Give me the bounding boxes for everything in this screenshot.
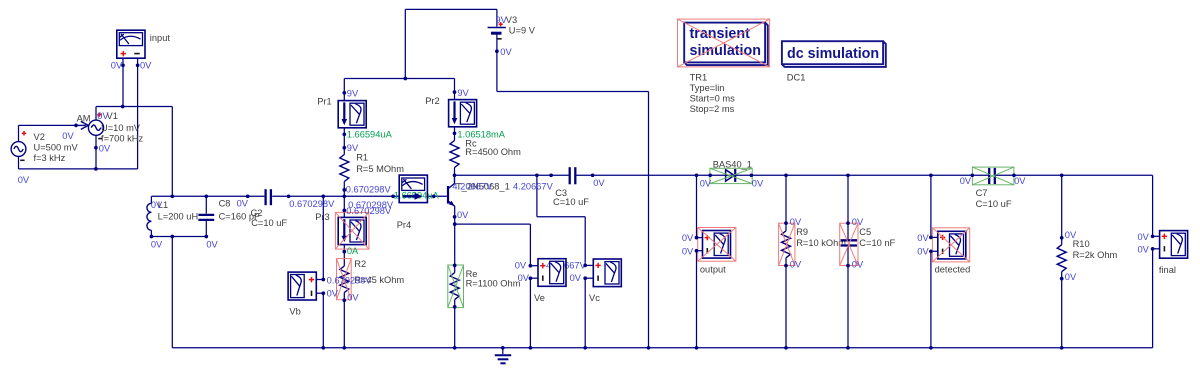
selection box BAS40_1 <box>710 168 752 183</box>
svg-text:DC1: DC1 <box>787 72 806 82</box>
svg-text:9V: 9V <box>347 88 359 98</box>
wire R2 to rail <box>343 293 345 348</box>
wire V2 plus stub <box>18 125 20 141</box>
wire Rc to collector <box>454 168 456 176</box>
wire Pr1 to R1 <box>343 128 345 155</box>
wire C3 to right rail <box>576 174 988 176</box>
voltmeter final <box>1153 231 1188 259</box>
svg-text:0V: 0V <box>500 47 512 57</box>
svg-text:V3: V3 <box>506 15 517 25</box>
capacitor C5 <box>841 240 857 245</box>
svg-text:Vb: Vb <box>289 307 300 317</box>
svg-text:0V: 0V <box>97 111 109 121</box>
svg-text:0V: 0V <box>515 260 527 270</box>
svg-text:9V: 9V <box>457 88 469 98</box>
svg-text:0V: 0V <box>327 289 339 299</box>
wire C8 bottom lead <box>205 221 207 236</box>
svg-text:Pr1: Pr1 <box>317 96 331 106</box>
wire Vc minus to rail <box>584 278 586 348</box>
wire base node to Vb plus <box>322 196 324 279</box>
wire 9V rail <box>344 78 454 80</box>
label C2 properties <box>251 208 288 228</box>
ground <box>495 348 511 364</box>
svg-text:U=500 mV: U=500 mV <box>34 143 79 153</box>
wire C7 to final corner <box>996 174 1153 176</box>
selection box R9 <box>779 223 795 265</box>
svg-text:C7: C7 <box>976 188 988 198</box>
wire Vc link <box>537 216 585 218</box>
svg-text:0V: 0V <box>518 273 530 283</box>
svg-text:0V: 0V <box>570 273 582 283</box>
wire final plus drop <box>1152 175 1154 236</box>
wire tank to ground rail <box>171 237 173 348</box>
svg-text:R10: R10 <box>1073 239 1090 249</box>
svg-text:0V: 0V <box>140 60 152 70</box>
label C8 properties <box>219 199 260 222</box>
svg-text:0V: 0V <box>206 240 218 250</box>
svg-text:0V: 0V <box>1138 232 1150 242</box>
wire Pr3 to R2 <box>343 244 345 266</box>
wire output minus to rail <box>696 251 698 348</box>
svg-text:0V: 0V <box>457 210 469 220</box>
svg-text:final: final <box>1159 265 1176 275</box>
svg-text:0V: 0V <box>99 144 111 154</box>
svg-text:R=10 kOhm: R=10 kOhm <box>796 238 846 248</box>
svg-text:L=200 uH: L=200 uH <box>158 211 199 221</box>
current probe Pr2 <box>449 100 477 127</box>
svg-text:Ve: Ve <box>534 293 545 303</box>
svg-text:R=1100 Ohm: R=1100 Ohm <box>466 279 521 289</box>
svg-text:C=10 uF: C=10 uF <box>976 199 1012 209</box>
inductor L1 <box>147 203 152 230</box>
svg-text:Type=lin: Type=lin <box>690 83 725 93</box>
current labels <box>347 130 506 256</box>
wire Pr4 to base <box>427 195 447 197</box>
current probe Pr1 <box>338 101 366 128</box>
svg-text:detected: detected <box>935 265 971 275</box>
resistor R9 <box>782 231 791 258</box>
wire source bottom <box>19 168 138 170</box>
svg-text:0V: 0V <box>62 131 74 141</box>
wire R10 to rail <box>1061 272 1063 348</box>
label C7 properties <box>976 188 1012 209</box>
capacitor C3 <box>570 167 576 184</box>
svg-text:C=10 uF: C=10 uF <box>251 218 287 228</box>
wire rail to C5 <box>847 175 849 239</box>
svg-text:0V: 0V <box>151 200 163 210</box>
svg-text:0V: 0V <box>347 293 359 303</box>
svg-text:9V: 9V <box>496 15 508 25</box>
wire C2 to Pr4 <box>272 195 399 197</box>
wire V3 plus stub <box>496 9 498 26</box>
capacitor C8 <box>198 215 214 220</box>
wire Vb minus to rail <box>322 293 324 348</box>
wire Ve plus drop <box>529 224 531 266</box>
svg-text:0V: 0V <box>18 175 30 185</box>
wire detected plus drop <box>930 175 932 237</box>
selection box detected <box>932 228 969 262</box>
svg-text:C8: C8 <box>219 199 231 209</box>
svg-text:input: input <box>150 33 171 43</box>
label V2 properties <box>34 132 79 163</box>
wire rail to R10 <box>1061 175 1063 244</box>
label R2 properties <box>354 259 404 285</box>
label Rc properties <box>465 138 521 157</box>
selection box C7 <box>972 167 1014 185</box>
label L1 properties <box>158 200 199 221</box>
selection box C5 <box>840 223 858 265</box>
label R9 properties <box>796 227 846 248</box>
am source V1 <box>76 112 104 138</box>
label V3 properties <box>506 15 536 35</box>
svg-text:0V: 0V <box>1065 230 1077 240</box>
svg-text:9V: 9V <box>347 143 359 153</box>
svg-text:R=5 MOhm: R=5 MOhm <box>356 164 404 174</box>
svg-text:Pr2: Pr2 <box>425 96 439 106</box>
svg-text:output: output <box>700 264 726 274</box>
wire V3 minus stub <box>496 34 498 91</box>
svg-text:C5: C5 <box>859 227 871 237</box>
svg-text:C2: C2 <box>251 208 263 218</box>
selection box Re <box>448 265 464 308</box>
voltmeter detected <box>931 231 966 259</box>
svg-text:0V: 0V <box>790 260 802 270</box>
svg-text:C=10 uF: C=10 uF <box>553 197 589 207</box>
wire final minus drop <box>1152 249 1154 348</box>
svg-text:0V: 0V <box>593 178 605 188</box>
wire R9 to rail <box>785 258 787 348</box>
svg-text:0V: 0V <box>852 260 864 270</box>
wire 9V to Pr1 <box>343 79 345 102</box>
label Re properties <box>466 269 521 288</box>
wire V1 top stub <box>95 107 97 121</box>
wire V3 return drop <box>648 92 650 348</box>
current probe Pr3 <box>338 217 366 244</box>
svg-text:1.06518mA: 1.06518mA <box>457 130 505 140</box>
svg-text:0V: 0V <box>237 199 249 209</box>
wire V1 top <box>96 106 172 108</box>
label TR1 properties <box>690 72 736 114</box>
svg-text:U=9 V: U=9 V <box>509 25 536 35</box>
svg-text:R1: R1 <box>356 153 368 163</box>
wire V2 to AM input <box>19 124 77 126</box>
wire tank top <box>151 195 264 197</box>
wire 9V drop <box>404 9 406 78</box>
svg-text:1.66594uA: 1.66594uA <box>347 130 393 140</box>
svg-text:Pr4: Pr4 <box>397 220 411 230</box>
selection box R2 <box>337 259 352 300</box>
wire L1 top lead <box>150 196 152 203</box>
label C3 properties <box>553 188 589 207</box>
selection box output <box>698 228 736 262</box>
current probe Pr4 <box>399 175 427 203</box>
svg-text:0V: 0V <box>1138 244 1150 254</box>
wire Re to rail <box>454 300 456 348</box>
svg-text:0V: 0V <box>790 217 802 227</box>
wire V1 bottom stub <box>95 135 97 169</box>
svg-text:0.670298V: 0.670298V <box>289 199 335 209</box>
svg-text:Pr3: Pr3 <box>315 212 329 222</box>
wire Vc plus drop <box>584 217 586 266</box>
wire V2 minus stub <box>18 156 20 169</box>
svg-text:C=10 nF: C=10 nF <box>859 238 895 248</box>
svg-text:0V: 0V <box>1065 272 1077 282</box>
svg-text:0V: 0V <box>752 178 764 188</box>
wire V3 plus top <box>405 8 497 10</box>
wire base node to Pr3 <box>343 196 345 217</box>
wire emitter to Ve branch <box>455 223 531 225</box>
capacitor C2 <box>266 189 271 205</box>
wire Ve minus to rail <box>529 278 531 348</box>
voltmeter output <box>697 231 731 259</box>
wire input meter minus <box>137 58 139 169</box>
svg-text:0A: 0A <box>347 246 359 256</box>
wire collector to Vc link <box>536 175 538 216</box>
svg-text:0V: 0V <box>917 246 929 256</box>
svg-text:0.670298V: 0.670298V <box>327 275 373 285</box>
svg-text:f=3 kHz: f=3 kHz <box>34 153 66 163</box>
svg-text:4.20667V: 4.20667V <box>452 181 493 191</box>
dc simulation DC1 <box>782 41 886 67</box>
svg-text:0V: 0V <box>1014 176 1026 186</box>
wire V3 return <box>497 91 649 93</box>
label R10 properties <box>1073 239 1118 260</box>
wire C8 top lead <box>205 196 207 213</box>
voltmeter input <box>117 30 145 58</box>
node labels <box>18 15 1150 303</box>
svg-text:4.20667V: 4.20667V <box>513 181 554 191</box>
battery V3 <box>488 22 506 39</box>
wire L1 bottom lead <box>150 230 152 236</box>
svg-text:0V: 0V <box>917 233 929 243</box>
voltmeter Ve <box>530 259 566 287</box>
wire detected minus to rail <box>930 251 932 347</box>
svg-text:0V: 0V <box>960 176 972 186</box>
selection box TR1 <box>678 19 770 67</box>
svg-text:0.670298V: 0.670298V <box>346 185 392 195</box>
wire input meter plus <box>122 58 124 106</box>
wire emitter node <box>454 206 456 224</box>
wire V1 to tank <box>171 107 173 197</box>
label V1 properties <box>101 111 143 143</box>
resistor R10 <box>1057 245 1066 272</box>
svg-text:BAS40_1: BAS40_1 <box>713 159 752 169</box>
transistor T_2N5068_1 <box>448 175 455 206</box>
label C5 properties <box>859 227 895 248</box>
wire collector line <box>455 174 569 176</box>
wire R1 to base node <box>343 182 345 197</box>
wire Pr2 to Rc <box>454 127 456 141</box>
resistor R2 <box>340 266 349 293</box>
capacitor C7 <box>989 168 995 184</box>
resistor Re <box>450 273 459 300</box>
svg-text:R2: R2 <box>354 259 366 269</box>
svg-text:Stop=2 ms: Stop=2 ms <box>690 104 735 114</box>
svg-text:R9: R9 <box>796 227 808 237</box>
svg-text:Start=0 ms: Start=0 ms <box>690 94 736 104</box>
ac source V2 <box>11 131 26 160</box>
wire 9V to Pr2 <box>454 79 456 100</box>
resistor Rc <box>450 141 459 168</box>
svg-text:AM: AM <box>77 114 91 124</box>
svg-text:R=4500 Ohm: R=4500 Ohm <box>465 147 521 157</box>
svg-text:0V: 0V <box>852 217 864 227</box>
wire emitter to Re <box>454 224 456 273</box>
svg-text:TR1: TR1 <box>690 72 708 82</box>
svg-text:0V: 0V <box>682 246 694 256</box>
selection box Pr3 <box>335 212 369 249</box>
svg-text:Vc: Vc <box>589 293 600 303</box>
transient simulation TR1 <box>684 23 768 66</box>
voltmeter Vc <box>585 259 621 287</box>
svg-text:R=2k Ohm: R=2k Ohm <box>1073 250 1118 260</box>
svg-text:V2: V2 <box>34 132 45 142</box>
wire output plus drop <box>696 175 698 237</box>
svg-text:0V: 0V <box>151 240 163 250</box>
svg-text:0.670298V: 0.670298V <box>346 206 392 216</box>
label R1 properties <box>356 153 404 174</box>
svg-text:0V: 0V <box>111 60 123 70</box>
voltmeter Vb <box>288 272 323 300</box>
svg-text:f=700 kHz: f=700 kHz <box>101 134 143 144</box>
svg-text:dc simulation: dc simulation <box>787 46 879 62</box>
svg-text:0V: 0V <box>682 233 694 243</box>
wire C5 to rail <box>847 247 849 348</box>
diode BAS40_1 <box>726 169 736 182</box>
resistor R1 <box>340 155 349 182</box>
wire ground rail <box>172 347 1152 349</box>
wire rail to R9 <box>785 175 787 231</box>
svg-text:0V: 0V <box>700 178 712 188</box>
wire tank bottom <box>151 236 206 238</box>
svg-text:U=10 mV: U=10 mV <box>101 123 141 133</box>
